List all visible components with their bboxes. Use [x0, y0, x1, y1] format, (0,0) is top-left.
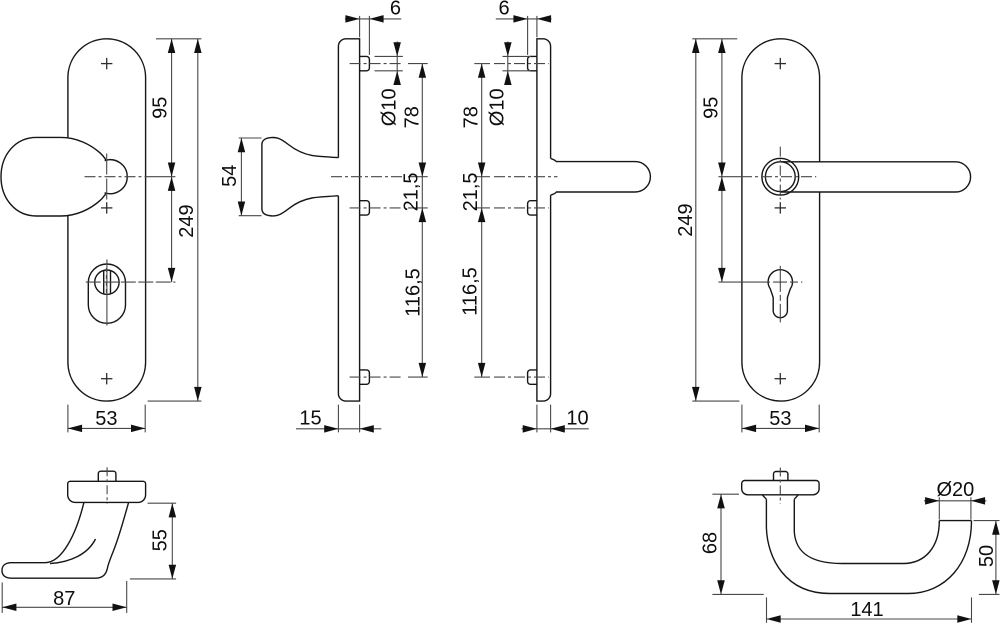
svg-text:Ø10: Ø10 — [379, 88, 401, 126]
svg-text:15: 15 — [299, 408, 321, 430]
svg-text:249: 249 — [675, 203, 697, 236]
svg-text:50: 50 — [976, 545, 998, 567]
svg-text:53: 53 — [769, 408, 791, 430]
svg-text:249: 249 — [176, 204, 198, 237]
svg-text:87: 87 — [53, 588, 75, 610]
svg-text:116,5: 116,5 — [403, 268, 425, 317]
svg-text:55: 55 — [150, 529, 172, 551]
svg-text:53: 53 — [95, 408, 117, 430]
svg-text:6: 6 — [498, 0, 509, 19]
svg-text:Ø10: Ø10 — [486, 88, 508, 126]
svg-text:141: 141 — [850, 599, 883, 621]
svg-text:78: 78 — [461, 106, 483, 128]
svg-text:21,5: 21,5 — [460, 172, 482, 211]
svg-text:21,5: 21,5 — [401, 172, 423, 211]
svg-text:10: 10 — [566, 408, 588, 430]
svg-text:78: 78 — [402, 106, 424, 128]
svg-text:116,5: 116,5 — [460, 267, 482, 316]
svg-text:Ø20: Ø20 — [936, 479, 974, 501]
svg-text:6: 6 — [390, 0, 401, 19]
svg-text:95: 95 — [150, 97, 172, 119]
svg-text:95: 95 — [700, 97, 722, 119]
svg-text:68: 68 — [700, 532, 722, 554]
svg-text:54: 54 — [219, 165, 241, 187]
